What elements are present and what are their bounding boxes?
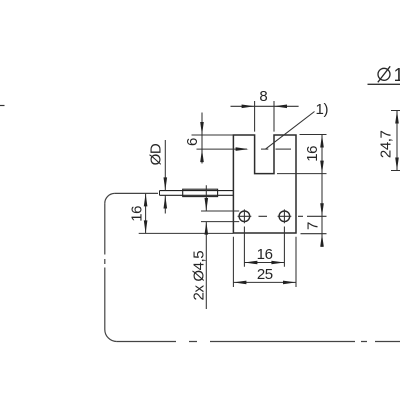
dimension 16 bottom (hole spacing) dimension line xyxy=(244,262,284,264)
dimension ØD dimension line upper segment xyxy=(164,140,166,190)
dimension 24,7 arrows (inside) xyxy=(395,111,399,124)
phantom bottom horizontal dash-dot line xyxy=(117,341,400,343)
svg-text:ØD: ØD xyxy=(148,143,165,165)
dimension 6 (top to optical axis) extension of body top to left xyxy=(192,134,234,136)
side view label underline / dimension line xyxy=(368,83,400,85)
dimension 16 bottom extension lines (from holes) xyxy=(244,227,284,267)
dimension 8 extension lines xyxy=(255,101,274,132)
dimension 2x Ø4,5 arrows (outside) xyxy=(205,198,209,211)
svg-text:24,7: 24,7 xyxy=(377,130,394,158)
dimension ØD dimension line lower segment xyxy=(164,196,166,214)
dimension 16 right (slot depth) extension lines xyxy=(277,135,327,174)
dimension 7 arrows (outside) xyxy=(320,203,324,216)
phantom cable-bend top horizontal segment xyxy=(115,192,158,194)
svg-text:6: 6 xyxy=(184,138,201,146)
dimension 24,7 extension ticks xyxy=(391,111,400,171)
dimension 16 bottom arrows (inside pointing out) xyxy=(244,261,257,265)
svg-text:25: 25 xyxy=(257,266,273,283)
cable sleeve rectangle xyxy=(183,189,218,196)
dimension 25 arrows (inside pointing out) xyxy=(233,281,246,285)
dimension 2x Ø4,5 dimension line (crosses cable, extends down to label) xyxy=(205,185,207,309)
svg-text:10: 10 xyxy=(394,65,400,85)
dimension 16 left extension line (body bottom extended left) xyxy=(139,232,234,234)
dimension 6 dimension line vertical xyxy=(201,113,203,164)
svg-text:7: 7 xyxy=(305,222,322,230)
optical axis segment right of slot xyxy=(276,148,292,150)
svg-text:16: 16 xyxy=(257,246,273,263)
dimension 25 extension lines xyxy=(233,237,296,287)
dimension ØD arrows (outside) xyxy=(164,177,168,190)
footnote 1) leader line xyxy=(266,112,315,150)
dimension 8 (slot width) dimension line xyxy=(231,105,299,107)
sensor body outline with slot xyxy=(233,135,296,233)
phantom bottom-left corner arc xyxy=(105,330,117,342)
stray centerline dash at left image edge xyxy=(0,105,5,107)
cable left end cap xyxy=(159,191,161,196)
phantom left vertical dash-dot line xyxy=(104,203,106,329)
dimension 16 left (cable axis to body bottom) dimension line xyxy=(145,193,147,233)
dimension 7 extension lines (hole axis and body bottom to right) xyxy=(301,216,327,233)
svg-text:1): 1) xyxy=(316,101,329,118)
optical axis line with beam arrow xyxy=(197,148,248,150)
optical axis mark inside slot xyxy=(261,148,268,150)
hole right circle xyxy=(279,211,290,222)
svg-text:2x Ø4,5: 2x Ø4,5 xyxy=(190,251,207,301)
dimension 2x Ø4,5 tangent extension lines xyxy=(201,211,239,222)
side view Ø1x label (cut off at right edge): diameter symbol xyxy=(378,68,390,80)
cable outline (two lines) xyxy=(160,190,234,192)
shared vertical dimension line for 16 and 7 (right side) xyxy=(321,135,323,248)
dimension 16 left arrows (inside) xyxy=(144,193,148,206)
dimension 16 right arrows (inside) xyxy=(320,135,324,148)
hole centerline horizontal with dashes xyxy=(238,215,303,217)
phantom top-left corner arc xyxy=(105,193,115,203)
dimension 25 dimension line xyxy=(233,281,296,283)
hole left circle xyxy=(239,211,250,222)
svg-text:16: 16 xyxy=(129,206,146,222)
hole vertical center marks xyxy=(244,209,284,223)
svg-text:16: 16 xyxy=(304,146,321,162)
dimension 24,7 dimension line xyxy=(396,111,398,171)
svg-text:8: 8 xyxy=(259,88,267,105)
dimension 8 arrows (outside pointing in) xyxy=(242,105,255,109)
dimension 6 arrows (outside) xyxy=(200,122,204,135)
